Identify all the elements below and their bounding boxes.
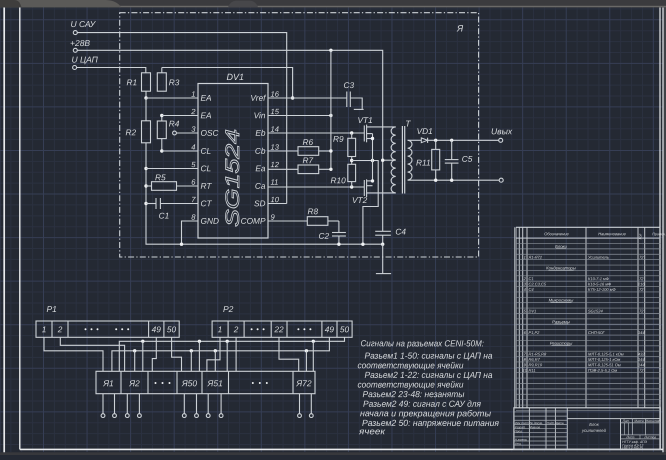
svg-text:К10-7-1 мФ: К10-7-1 мФ	[588, 276, 610, 281]
svg-text:Разьем2 23-48: незаняты: Разьем2 23-48: незаняты	[362, 389, 464, 399]
svg-text:SG1524: SG1524	[588, 308, 603, 313]
svg-text:50: 50	[167, 324, 177, 334]
svg-text:+28В: +28В	[70, 38, 90, 48]
wire pin5	[146, 168, 198, 170]
wire P1.1 to Я1	[44, 337, 103, 371]
svg-text:OSC: OSC	[200, 128, 219, 138]
svg-text:Я2: Я2	[128, 378, 140, 388]
wire P2.50 power rail	[119, 337, 344, 371]
svg-text:R9: R9	[333, 134, 344, 144]
resistor R10	[348, 164, 356, 181]
svg-text:1: 1	[42, 324, 47, 334]
svg-text:EA: EA	[200, 93, 212, 103]
node R6 bus	[329, 149, 332, 152]
wire pin4	[162, 150, 198, 152]
svg-text:49: 49	[152, 324, 162, 334]
svg-text:Eb: Eb	[255, 128, 266, 138]
svg-text:72: 72	[639, 276, 644, 281]
resistor R4	[157, 121, 166, 139]
svg-text:R11: R11	[416, 158, 431, 168]
svg-text:RT: RT	[200, 181, 212, 191]
node R11 bottom	[434, 179, 437, 182]
wire mid to source bus	[352, 161, 379, 245]
svg-text:соответствующие ячейки: соответствующие ячейки	[357, 380, 463, 390]
svg-text:2: 2	[233, 324, 239, 334]
svg-text:Я1: Я1	[102, 378, 114, 388]
wire pin1	[146, 97, 198, 99]
svg-text:T: T	[405, 119, 411, 129]
svg-text:R1-R5,R8: R1-R5,R8	[528, 352, 547, 357]
node C5 top	[450, 139, 453, 142]
svg-text:Листов: Листов	[643, 435, 656, 439]
node power rail tap	[226, 340, 229, 343]
resistor R7	[268, 168, 298, 170]
diode VD1	[421, 138, 427, 143]
svg-text:R5: R5	[155, 172, 166, 182]
svg-text:усилителей: усилителей	[581, 428, 607, 433]
svg-text:ГОСТ 2.702-75: ГОСТ 2.702-75	[622, 446, 643, 450]
node САУ rail tap	[305, 349, 308, 352]
node R7 bus	[329, 168, 332, 171]
svg-text:Микросхемы: Микросхемы	[549, 298, 574, 303]
node pin4 R4	[160, 149, 163, 152]
svg-text:начала и прекращения работы: начала и прекращения работы	[360, 408, 492, 418]
svg-text:22: 22	[273, 324, 284, 334]
svg-text:GND: GND	[200, 216, 218, 226]
svg-text:13: 13	[270, 143, 279, 152]
resistor R2	[142, 121, 151, 143]
svg-text:72: 72	[639, 287, 644, 292]
svg-text:12: 12	[270, 160, 279, 169]
svg-text:МЛТ-0,125-51 Ом: МЛТ-0,125-51 Ом	[588, 362, 621, 367]
svg-text:Vin: Vin	[254, 110, 266, 120]
svg-text:Я: Я	[456, 23, 464, 33]
svg-text:Блоки: Блоки	[555, 244, 567, 249]
svg-text:14: 14	[270, 125, 278, 134]
svg-text:соответствующие ячейки: соответствующие ячейки	[357, 360, 463, 370]
svg-text:C3: C3	[343, 80, 354, 90]
svg-text:CT: CT	[200, 198, 212, 208]
wire secondary bottom	[408, 179, 500, 181]
svg-text:4: 4	[191, 143, 195, 152]
svg-text:R10: R10	[330, 175, 346, 185]
node pin5	[144, 167, 147, 170]
node САУ rail tap	[133, 349, 136, 352]
svg-text:144: 144	[638, 357, 645, 362]
svg-text:11: 11	[270, 178, 278, 187]
wire P2.1 to Я51	[207, 337, 220, 371]
node center tap +28В	[381, 159, 384, 162]
svg-text:1: 1	[218, 324, 223, 334]
svg-text:Лит.: Лит.	[622, 419, 631, 423]
node САУ rail tap	[214, 349, 217, 352]
svg-text:216: 216	[637, 282, 645, 287]
svg-text:Лист: Лист	[625, 435, 635, 439]
node R10 bottom	[350, 185, 353, 188]
op-amp U1 IC DV1 SG1524 body	[198, 84, 268, 239]
svg-text:P1,P2: P1,P2	[528, 330, 540, 335]
svg-text:C4: C4	[395, 227, 406, 237]
node C5 bottom	[450, 179, 453, 182]
wire secondary top	[408, 139, 422, 141]
svg-text:Cb: Cb	[255, 146, 266, 156]
ground chassis bar	[382, 244, 384, 273]
svg-text:C5: C5	[462, 154, 473, 164]
svg-text:К75-12-100 мФ: К75-12-100 мФ	[588, 287, 616, 292]
node САУ rail tap	[190, 349, 193, 352]
svg-text:CL: CL	[200, 146, 211, 156]
wire pin8 GND	[182, 221, 199, 244]
svg-text:P2: P2	[223, 304, 234, 314]
svg-text:R11: R11	[528, 368, 535, 373]
svg-text:Разьем2 1-22: сигналы с ЦАП на: Разьем2 1-22: сигналы с ЦАП на	[364, 370, 492, 380]
svg-text:C1: C1	[159, 211, 170, 221]
svg-text:R4: R4	[169, 119, 180, 129]
svg-text:Vref: Vref	[250, 93, 267, 103]
svg-text:R1: R1	[126, 77, 137, 87]
capacitor C5	[451, 140, 453, 159]
node source gnd	[361, 243, 364, 246]
svg-text:ячеек: ячеек	[358, 426, 386, 436]
svg-text:1: 1	[191, 90, 195, 99]
svg-text:МЛТ-0,125-5,1 кОм: МЛТ-0,125-5,1 кОм	[588, 352, 624, 357]
svg-text:Разьем2 49: сигнал с САУ для: Разьем2 49: сигнал с САУ для	[363, 399, 481, 409]
resistor R9	[348, 138, 356, 156]
enclosure boundary Я (dash-dot)	[120, 13, 479, 257]
wire Vin line	[268, 115, 331, 117]
capacitor C4	[375, 230, 391, 232]
output terminal Uвых +	[499, 138, 503, 142]
svg-text:SG1524: SG1524	[223, 129, 244, 227]
resistor R5	[146, 185, 152, 187]
svg-text:R9,R10: R9,R10	[528, 362, 542, 367]
node pin1	[144, 96, 147, 99]
svg-text:72: 72	[639, 308, 644, 313]
parts list table	[513, 227, 515, 407]
wire left bus	[146, 169, 383, 245]
wire P1.2 to Я2	[60, 337, 124, 371]
svg-text:EA: EA	[200, 110, 212, 120]
svg-text:CL: CL	[200, 163, 211, 173]
wire P2.49 САУ rail	[112, 337, 330, 371]
wire P2.2	[235, 337, 237, 371]
resistor R1	[142, 73, 151, 91]
svg-text:DV1: DV1	[528, 308, 536, 313]
node power rail tap	[198, 340, 201, 343]
node +28В branch	[329, 49, 332, 52]
module row Я1-Я72	[96, 371, 315, 393]
svg-text:Кол: Кол	[638, 234, 642, 240]
svg-text:2: 2	[190, 107, 196, 116]
svg-text:16: 16	[270, 90, 279, 99]
svg-text:SD: SD	[254, 198, 266, 208]
svg-text:Uвых: Uвых	[491, 126, 513, 136]
wire P1.50 to Я50	[172, 337, 182, 371]
svg-text:R3: R3	[169, 77, 180, 87]
svg-text:ПЭВ-2,5-5,1 Ом: ПЭВ-2,5-5,1 Ом	[588, 368, 617, 373]
svg-text:DV1: DV1	[226, 72, 244, 82]
svg-text:C2,C3,C5: C2,C3,C5	[528, 282, 546, 287]
wire U САУ to SD	[77, 33, 286, 204]
wire Vref line	[268, 97, 347, 99]
output terminal Uвых -	[499, 178, 503, 182]
wire +28В to R6 R7 bus	[330, 50, 332, 169]
node Vref-ЦАП junction	[291, 96, 294, 99]
svg-text:C4: C4	[528, 287, 534, 292]
resistor R8	[268, 220, 307, 222]
wire +28В rail	[77, 50, 382, 231]
node pin2 R3/R4	[160, 114, 163, 117]
svg-text:Сигналы на разьемах CENI-50M:: Сигналы на разьемах CENI-50M:	[360, 338, 484, 348]
svg-text:К10-5-16 мФ: К10-5-16 мФ	[588, 282, 612, 287]
module output terminals	[102, 394, 104, 414]
svg-text:72: 72	[639, 255, 644, 260]
wire R3 to Vref	[162, 68, 293, 99]
node Vin +28В	[329, 114, 332, 117]
wire U ЦАП to R1	[77, 68, 146, 73]
wire P2.22 to Я72	[279, 337, 299, 371]
svg-text:VT1: VT1	[357, 115, 372, 125]
svg-text:Я1-Я72: Я1-Я72	[527, 255, 542, 260]
svg-text:VT2: VT2	[352, 195, 368, 205]
node GND	[180, 243, 183, 246]
svg-text:P1: P1	[46, 304, 57, 314]
title block	[514, 408, 660, 450]
node source mid	[371, 159, 374, 162]
svg-text:COMP: COMP	[241, 216, 266, 226]
svg-text:Усилитель: Усилитель	[588, 255, 609, 260]
svg-text:15: 15	[270, 107, 279, 116]
svg-text:Блок: Блок	[589, 422, 599, 427]
node R9 R10 mid	[350, 159, 353, 162]
svg-text:432: 432	[638, 352, 645, 357]
node R11 top	[434, 139, 437, 142]
svg-text:144: 144	[638, 362, 645, 367]
wire Eb to VT1 gate	[268, 132, 364, 134]
svg-text:R8: R8	[307, 206, 318, 216]
svg-text:МЛТ-0,125-1 кОм: МЛТ-0,125-1 кОм	[588, 357, 621, 362]
wire pin3 OSC open	[176, 132, 198, 134]
svg-text:СНП-50Г: СНП-50Г	[588, 330, 605, 335]
sheet frame	[3, 8, 5, 453]
svg-text:Разъемы: Разъемы	[552, 319, 570, 324]
node power rail tap	[312, 340, 315, 343]
svg-text:72: 72	[639, 368, 644, 373]
svg-text:144: 144	[638, 330, 645, 335]
svg-text:C2: C2	[318, 231, 329, 241]
svg-text:Примеч.: Примеч.	[652, 232, 666, 236]
wire pin10 SD stub	[268, 203, 287, 205]
svg-text:Конденсаторы: Конденсаторы	[546, 265, 576, 270]
svg-text:R7: R7	[302, 155, 313, 165]
svg-text:10: 10	[270, 195, 279, 204]
svg-text:Масштаб: Масштаб	[645, 419, 660, 423]
svg-text:10: 10	[523, 368, 528, 373]
svg-text:Подп. Дата: Подп. Дата	[547, 421, 564, 425]
svg-text:U САУ: U САУ	[70, 19, 96, 29]
resistor R6	[268, 150, 298, 152]
svg-text:49: 49	[325, 324, 335, 334]
svg-text:Наименование: Наименование	[598, 231, 626, 236]
svg-text:Резисторы: Резисторы	[550, 341, 573, 346]
node pin7	[144, 202, 147, 205]
svg-text:Иванов: Иванов	[530, 425, 541, 429]
svg-text:Ea: Ea	[255, 163, 266, 173]
svg-text:Ca: Ca	[255, 181, 266, 191]
capacitor C2	[338, 221, 340, 233]
svg-text:R6: R6	[302, 137, 313, 147]
svg-text:Пров.: Пров.	[515, 429, 523, 433]
svg-text:Я51: Я51	[207, 378, 224, 388]
svg-text:1: 1	[524, 255, 526, 260]
node R9 top	[350, 131, 353, 134]
svg-text:Я72: Я72	[295, 378, 312, 388]
svg-text:Обозначение: Обозначение	[544, 231, 569, 236]
wire pin2	[162, 115, 198, 117]
svg-text:Разьем1 1-50: сигналы с ЦАП на: Разьем1 1-50: сигналы с ЦАП на	[364, 351, 492, 361]
svg-text:Масса: Масса	[634, 419, 644, 423]
node C4 gnd	[381, 243, 384, 246]
svg-text:Я50: Я50	[181, 378, 198, 388]
capacitor C1	[146, 203, 156, 205]
svg-text:50: 50	[340, 324, 350, 334]
svg-text:VD1: VD1	[417, 126, 433, 136]
resistor R3	[157, 73, 166, 91]
svg-text:U ЦАП: U ЦАП	[71, 55, 98, 65]
resistor R11	[432, 149, 440, 170]
svg-text:R2: R2	[125, 127, 136, 137]
node power rail tap	[141, 340, 144, 343]
node pin6	[144, 184, 147, 187]
wire P1.49	[152, 337, 156, 371]
svg-text:2: 2	[57, 324, 63, 334]
wire VD1 to output	[428, 139, 499, 141]
svg-text:R6,R7: R6,R7	[528, 357, 540, 362]
capacitor C3	[346, 92, 348, 108]
wire center tap	[383, 159, 396, 161]
svg-text:C1: C1	[528, 276, 533, 281]
wire Ca to VT2 gate	[268, 186, 364, 188]
svg-text:Утв.: Утв.	[515, 442, 522, 446]
node C2 gnd	[337, 243, 340, 246]
